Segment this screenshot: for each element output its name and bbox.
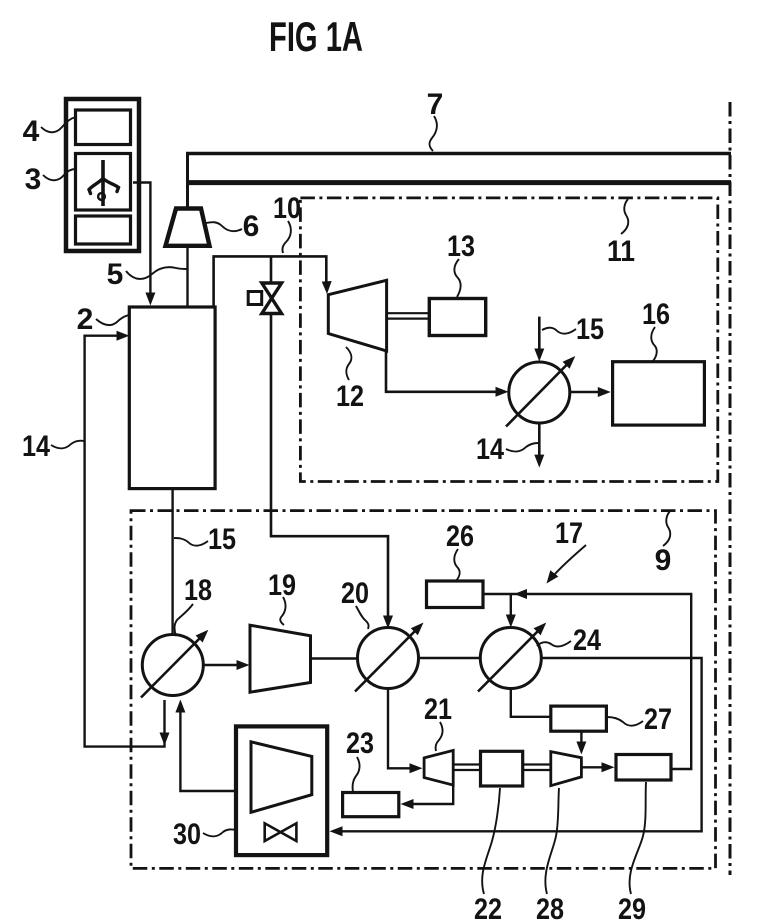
wind turbine symbol mast [101, 160, 105, 206]
valve 10 actuator square [248, 292, 262, 305]
heat exchanger 14 [509, 362, 570, 423]
box 29 [616, 755, 671, 781]
leader 14 mid [506, 443, 538, 451]
leader 24 [537, 641, 571, 646]
leader 12 [346, 347, 351, 380]
wire turbine 12 outlet to heat exchanger 14 [386, 349, 499, 392]
arrow into box 23 right [401, 799, 414, 809]
arrow into compressor 19 [237, 660, 250, 670]
generator 13 [429, 299, 485, 336]
arrow into heat exchanger 14 left [496, 387, 509, 397]
box 3 (middle inner box, wind sensor) [76, 154, 131, 211]
svg-text:15: 15 [576, 313, 604, 346]
shaft box 22 to compressor 28 [523, 765, 551, 771]
shaft turbine 21 to box 22 [453, 765, 480, 771]
arrow into consumer 16 [598, 387, 611, 397]
wire 15 from tank 2 down to heat exchanger 18 [171, 489, 173, 635]
leader 27 [607, 717, 643, 726]
leader 15 upper [542, 328, 576, 334]
svg-text:10: 10 [273, 192, 301, 225]
leader 4 [41, 117, 76, 132]
wire heat exchanger 20 to heat exchanger 24 [419, 657, 481, 659]
arrow into heat exchanger 14 top [534, 349, 544, 362]
svg-text:9: 9 [655, 544, 672, 577]
compressor 19 [250, 625, 311, 692]
wire heat exchanger 24 right then down to unit 30 [337, 658, 702, 831]
svg-text:2: 2 [77, 303, 94, 336]
compressor 28 [551, 752, 582, 786]
heat exchanger 14 diagonal arrowhead [563, 356, 576, 369]
leader 16 [651, 327, 656, 361]
arrow into tank 2 top [145, 293, 155, 306]
bus left end connector [186, 152, 189, 207]
arrow at drain end [534, 455, 544, 468]
leader 23 [353, 757, 360, 792]
leader 21 [436, 722, 443, 751]
svg-text:26: 26 [446, 520, 474, 553]
arrow on wire pointing left toward box 26 [514, 589, 527, 599]
svg-text:6: 6 [243, 210, 260, 243]
control box 27 [551, 706, 607, 731]
arrow into heat exchanger 20 top [383, 616, 393, 629]
leader 28 [545, 788, 559, 894]
heat exchanger 18 diagonal [141, 637, 201, 698]
branch down into heat exchanger 24 top [510, 594, 512, 618]
wire from tank 2 top right up and to turbine 12 inlet [214, 256, 327, 307]
leader 22 [482, 788, 500, 894]
svg-text:21: 21 [424, 693, 452, 726]
wire unit 30 left to heat exchanger 18 bottom [180, 709, 236, 791]
heat exchanger 18 [142, 635, 203, 696]
heat exchanger 20 diagonal [355, 630, 416, 692]
turbine 21 [424, 750, 453, 785]
svg-text:19: 19 [268, 569, 296, 602]
control box 26 [427, 581, 484, 608]
leader 15 lower [174, 538, 208, 546]
leader 18 [175, 604, 193, 636]
drain line from heat exchanger 14 bottom [538, 423, 541, 458]
leader 10 [282, 221, 290, 253]
svg-text:12: 12 [336, 380, 364, 413]
leader 20 [356, 606, 369, 629]
leader 5 [126, 267, 187, 279]
arrow into box 29 [602, 762, 615, 772]
box 4 (upper inner box) [76, 110, 131, 145]
wind turbine symbol hub loop [98, 193, 105, 200]
heat exchanger 20 diagonal arrowhead [411, 623, 424, 636]
arrow into unit 30 right side [330, 826, 343, 836]
svg-text:30: 30 [173, 818, 201, 851]
leader 30 [203, 829, 236, 836]
grid bus 7 upper line [186, 152, 731, 156]
svg-text:23: 23 [346, 727, 374, 760]
leader arrow 17 [554, 545, 586, 575]
svg-text:FIG 1A: FIG 1A [269, 13, 363, 60]
svg-text:14: 14 [476, 433, 504, 466]
leader 13 [454, 259, 460, 297]
shaft turbine 12 to generator 13 [387, 313, 430, 318]
wire branch through valve 10 down to box 9 [271, 256, 388, 618]
svg-text:16: 16 [642, 298, 670, 331]
leader 26 [454, 549, 459, 581]
box 22 [481, 751, 523, 786]
wire heat exchanger 24 bottom to box 27 [511, 689, 550, 717]
svg-text:24: 24 [573, 624, 601, 657]
leader 14 left [51, 441, 84, 449]
svg-text:29: 29 [618, 893, 646, 924]
arrow into heat exchanger 24 top [506, 615, 516, 628]
boundary box 11 (dash-dot) [300, 198, 717, 482]
wire from funnel down to tank 2 [186, 246, 188, 307]
svg-text:17: 17 [555, 517, 583, 550]
svg-text:5: 5 [107, 258, 124, 291]
svg-text:27: 27 [644, 703, 672, 736]
svg-text:13: 13 [447, 230, 475, 263]
grid bus 7 lower line [186, 180, 731, 185]
wind turbine symbol right blade [103, 179, 119, 192]
leader 11 [621, 199, 628, 234]
wind turbine symbol left blade [89, 179, 103, 194]
wire 5 from wind unit to tank 2 [133, 183, 150, 298]
valve 10 body [262, 283, 282, 314]
wire turbine 21 bottom to box 23 [412, 784, 453, 804]
wire heat exchanger 20 bottom to turbine 21 [388, 689, 412, 768]
svg-text:3: 3 [25, 163, 42, 196]
heat exchanger 24 diagonal arrowhead [534, 623, 547, 636]
steam turbine 12 [328, 280, 386, 351]
svg-text:4: 4 [23, 115, 40, 148]
heat exchanger 14 diagonal [506, 364, 568, 427]
wind measurement unit outer box (3/4) [66, 99, 139, 251]
arrow up into heat exchanger 18 [175, 700, 185, 713]
heat exchanger 24 [480, 628, 541, 689]
leader 19 [280, 597, 285, 625]
leader 2 [96, 315, 129, 325]
svg-text:11: 11 [607, 235, 635, 268]
wire box 27 down into compressor 28 [580, 731, 582, 745]
svg-text:15: 15 [208, 523, 236, 556]
wire compressor 28 to box 29 [581, 766, 603, 768]
arrow into tank 2 left [117, 331, 130, 341]
outer plant boundary (vertical dash-dot line) [729, 102, 732, 875]
inlet funnel 6 [166, 209, 210, 246]
bottom inner box of wind unit [76, 216, 131, 244]
heat exchanger 18 diagonal arrowhead [196, 630, 209, 643]
wire heat exchanger 18 to compressor 19 [204, 664, 241, 666]
svg-text:14: 14 [22, 430, 50, 463]
svg-text:22: 22 [474, 893, 502, 924]
svg-text:28: 28 [536, 893, 564, 924]
heat exchanger 24 diagonal [478, 630, 539, 692]
unit 30 outer box [236, 726, 327, 855]
consumer box 16 [613, 362, 705, 425]
leader 7 [429, 116, 436, 151]
heat exchanger 20 [358, 628, 419, 689]
arrow into turbine 21 [410, 763, 423, 773]
tank 2 [129, 307, 215, 489]
svg-text:18: 18 [184, 574, 212, 607]
supply line 15 into heat exchanger 14 [538, 317, 541, 352]
leader 29 [630, 782, 646, 894]
return line 14 from circle 18 to tank 2 [85, 336, 165, 747]
box 23 [343, 793, 399, 817]
arrow into compressor 28 top [576, 742, 586, 755]
leader 9 [663, 511, 670, 546]
arrow into turbine 12 inlet [322, 281, 332, 294]
turbine inside unit 30 [251, 742, 312, 813]
leader 6 [206, 222, 242, 231]
wire heat exchanger 14 to consumer 16 [570, 391, 601, 394]
boundary box 9 (dash-dot) [131, 511, 716, 869]
wire from box 26 right to riser and down to box 29 [483, 594, 691, 769]
valve inside unit 30 [265, 823, 297, 841]
leader 3 [43, 169, 76, 180]
arrow down before corner [160, 733, 170, 746]
wire compressor 19 to heat exchanger 20 [311, 657, 359, 659]
svg-text:20: 20 [341, 577, 369, 610]
